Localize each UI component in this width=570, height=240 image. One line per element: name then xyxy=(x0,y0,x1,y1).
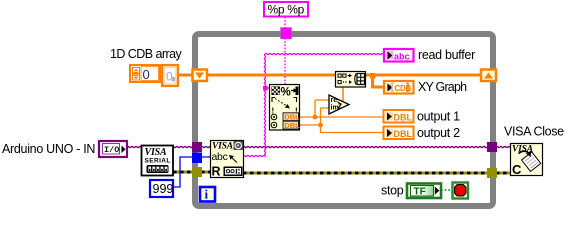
label: VISA Close xyxy=(504,125,564,139)
VISA Close xyxy=(511,144,543,178)
Build Array xyxy=(336,72,366,88)
tunnel: VISA resource on left border xyxy=(192,142,202,152)
indicator read buffer xyxy=(384,49,414,62)
wire: complex output Re/Im To Complex up to Build Array xyxy=(342,87,344,101)
svg-text:read buffer: read buffer xyxy=(418,48,475,62)
svg-text:DBL: DBL xyxy=(284,121,300,130)
svg-text:XY Graph: XY Graph xyxy=(418,80,467,94)
indicator XY Graph xyxy=(384,81,414,94)
Re/Im To Complex xyxy=(329,95,349,114)
svg-text:VISA Close: VISA Close xyxy=(504,125,564,139)
wire: read buffer string from VISA Read, up and over to read buffer indicator xyxy=(243,53,384,156)
label: output 1 xyxy=(417,110,460,124)
wire: error cluster from VISA Configure Serial Port to left tunnel xyxy=(173,171,193,174)
wire: VISA resource Serial Port node to left tunnel xyxy=(172,146,193,147)
tunnel: byte count on left border xyxy=(192,153,202,164)
loop condition terminal xyxy=(453,183,469,199)
wire: string branch to Scan From String input xyxy=(263,86,270,91)
svg-text:0: 0 xyxy=(143,67,150,82)
svg-text:i: i xyxy=(205,187,209,202)
tunnel: error cluster on right border xyxy=(487,168,497,178)
svg-text:Arduino UNO - IN: Arduino UNO - IN xyxy=(2,142,95,156)
wire: VISA resource VISA Read to right tunnel xyxy=(243,146,488,147)
wire: error cluster left tunnel to VISA Read xyxy=(201,171,211,174)
array constant 1D CDB array (element) xyxy=(162,65,178,86)
wire: array from Build Array to right shift register xyxy=(365,74,481,77)
I/O constant Arduino UNO - IN xyxy=(99,141,127,157)
svg-text:CDB: CDB xyxy=(395,84,412,93)
wire: array from left shift register to Build Array xyxy=(206,74,336,77)
svg-text:%p %p: %p %p xyxy=(268,3,305,17)
wire: error cluster VISA Read to right tunnel xyxy=(243,172,488,175)
iteration terminal i xyxy=(200,187,215,202)
svg-text:I/O: I/O xyxy=(104,145,119,155)
svg-text:DBL: DBL xyxy=(394,129,413,139)
svg-text:%: % xyxy=(281,87,291,99)
svg-text:C: C xyxy=(512,162,522,177)
svg-text:DBL: DBL xyxy=(394,113,413,123)
svg-text:SERIAL: SERIAL xyxy=(145,158,171,165)
wire: boolean stop to loop condition terminal xyxy=(441,189,452,191)
svg-text:stop: stop xyxy=(381,184,404,198)
wire: VISA resource right tunnel to VISA Close xyxy=(496,146,511,147)
label: XY Graph xyxy=(418,80,467,94)
indicator output 2 xyxy=(384,127,414,140)
svg-text:abc: abc xyxy=(394,52,410,62)
label: stop xyxy=(381,184,404,198)
label: 1D CDB array xyxy=(110,47,182,61)
svg-text:1D CDB array: 1D CDB array xyxy=(110,47,182,61)
wire: error cluster right tunnel to VISA Close xyxy=(496,172,511,175)
label: read buffer xyxy=(418,48,475,62)
tunnel: format string on loop top border xyxy=(281,28,292,40)
svg-text:abc: abc xyxy=(212,151,228,163)
wire: VISA resource left tunnel to VISA Read xyxy=(201,146,211,147)
wire: 1D CDB array constant to left shift register xyxy=(179,74,193,77)
string constant %p %p xyxy=(264,2,308,17)
wire: DBL 2 from Scan From String to junction, to im input and output 2 xyxy=(298,108,384,133)
while loop xyxy=(195,34,493,206)
svg-text:output 1: output 1 xyxy=(417,110,460,124)
svg-text:re: re xyxy=(331,97,338,104)
numeric constant 999 xyxy=(150,180,173,197)
label: output 2 xyxy=(417,126,460,140)
Scan From String xyxy=(270,85,301,131)
svg-text:TF: TF xyxy=(414,187,426,198)
VISA Configure Serial Port xyxy=(142,146,174,176)
wire: VISA resource I/O control to VISA Configure Serial Port xyxy=(127,146,142,147)
wire: array branch down to XY Graph indicator xyxy=(370,73,384,87)
svg-text:output 2: output 2 xyxy=(417,126,460,140)
boolean control stop xyxy=(407,184,441,199)
svg-text:VISA: VISA xyxy=(212,142,233,152)
tunnel: VISA resource on right border xyxy=(487,142,497,152)
shift register right xyxy=(481,70,496,82)
svg-text:999: 999 xyxy=(153,182,174,196)
wire: DBL 1 from Scan From String to junction, to re input and output 1 xyxy=(298,100,384,119)
indicator output 1 xyxy=(384,110,414,123)
array constant 1D CDB array (index frame) xyxy=(130,65,160,82)
wire: format string %p %p down through tunnel to Scan From String xyxy=(284,17,286,84)
label: Arduino UNO - IN xyxy=(2,142,95,156)
tunnel: error cluster on left border xyxy=(192,167,202,177)
VISA Read xyxy=(211,141,244,179)
svg-text:VISA: VISA xyxy=(145,147,168,158)
svg-text:R: R xyxy=(212,165,221,179)
shift register left xyxy=(193,70,208,82)
wire: byte count 999 to blue tunnel and VISA Read xyxy=(173,157,211,187)
